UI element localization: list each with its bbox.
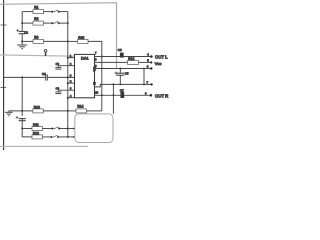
switch SA4 (51, 135, 60, 138)
wire bus1b (21, 77, 23, 116)
node bus2 R12 (67, 136, 69, 138)
capacitor C5 (119, 69, 121, 73)
wire pin1 stub (68, 57, 75, 59)
node bus2 pin1 (67, 57, 69, 59)
test point circle (44, 49, 47, 52)
resistor R13 (128, 60, 139, 64)
node bus1b top (21, 76, 23, 78)
svg-text:8: 8 (95, 65, 97, 68)
wire R3 row left (22, 40, 33, 42)
wire R1 row left (22, 11, 33, 13)
resistor R4 (78, 39, 89, 43)
node bus2-R3 (67, 40, 69, 42)
wire bus2 (67, 12, 69, 137)
wire test point stem (45, 52, 47, 56)
wire long input row (4, 76, 46, 78)
svg-text:4: 4 (147, 53, 149, 57)
svg-text:OUT L: OUT L (155, 54, 168, 59)
svg-text:C5: C5 (125, 72, 129, 76)
wire R2 row right (44, 22, 52, 24)
svg-text:R14: R14 (77, 105, 83, 109)
wire R11 row mid (43, 128, 52, 130)
wire OUT L row (102, 56, 152, 58)
svg-text:R11: R11 (33, 123, 39, 127)
op-amp U1 / IC DA1 (75, 54, 95, 97)
svg-text:6: 6 (145, 91, 147, 95)
node row3 cap (119, 68, 121, 70)
wire pin4 stub (68, 82, 75, 84)
svg-text:10: 10 (95, 90, 98, 94)
wire R1 row right (44, 11, 52, 13)
scan artifact gray bottom line (0, 145, 88, 147)
wire R10 row right (43, 110, 68, 112)
wire x113 vertical (112, 84, 114, 114)
frame tick mid (1, 87, 7, 89)
switch SA3 (51, 127, 60, 130)
scan artifact gray mid line (0, 55, 75, 56)
wire R12 arrow stub (68, 136, 73, 138)
svg-text:Vcc: Vcc (155, 61, 162, 66)
node bus2-R2 (67, 22, 69, 24)
wire pin5 row (58, 89, 74, 91)
capacitor C8 (16, 116, 26, 121)
wire Vcc row right (139, 61, 152, 63)
resistor R10 (33, 109, 44, 113)
svg-text:R1: R1 (34, 6, 38, 10)
svg-text:R10: R10 (34, 105, 40, 109)
svg-text:7: 7 (147, 80, 149, 84)
resistor R14 (76, 109, 87, 113)
node bus1-R3 (21, 40, 23, 42)
node OUT R terminal (150, 94, 153, 97)
resistor R12 (32, 135, 43, 139)
svg-text:R2: R2 (34, 17, 38, 21)
switch SA1 (51, 10, 60, 13)
wire pin bottom stub (68, 97, 75, 99)
resistor R11 (32, 127, 43, 131)
wire R11 arrow stub (68, 128, 73, 130)
node bus2 pin3 (67, 76, 69, 78)
frame tick top (1, 24, 7, 26)
node riser OUT L (101, 55, 103, 57)
wire OUT R row (95, 94, 151, 96)
resistor R1 (33, 10, 44, 14)
ground G1 (17, 45, 27, 49)
svg-text:R13: R13 (128, 57, 134, 61)
svg-text:R3: R3 (34, 36, 38, 40)
wire bus1b bottom corner (22, 129, 32, 137)
wire R12 row mid (43, 136, 51, 138)
wire R4 to riser (88, 41, 102, 111)
node bus2 R10 (67, 110, 69, 112)
capacitor C1 (16, 29, 26, 34)
wire row3 (95, 68, 152, 70)
svg-text:R12: R12 (33, 131, 39, 135)
svg-text:R15: R15 (78, 36, 84, 40)
wire R11 row left (22, 128, 32, 130)
wire Vcc row (95, 61, 128, 63)
wire R3 row right (44, 40, 68, 42)
resistor R3 (33, 39, 44, 43)
wire bus1 top (21, 12, 23, 32)
svg-text:9: 9 (95, 59, 97, 62)
node row3 x144 (143, 68, 145, 70)
wire pin2 row (58, 65, 74, 67)
svg-text:C6: C6 (118, 48, 122, 52)
wire row4 with hop (95, 84, 152, 87)
wire R11 row right (59, 128, 67, 130)
svg-text:DA1: DA1 (81, 55, 89, 60)
svg-text:C1: C1 (24, 30, 28, 34)
capacitor C7 (120, 92, 124, 98)
scan artifact gray rounded box (75, 114, 113, 143)
node Vcc terminal (150, 61, 152, 63)
node OUT L terminal (150, 55, 153, 58)
node bus2 R11 (67, 128, 69, 130)
switch SA2 (51, 21, 60, 24)
frame border left (3, 0, 5, 150)
ground G2 left (5, 111, 13, 116)
node bus1b R10 (21, 110, 23, 112)
wire R12 row right (58, 136, 68, 138)
node bus1b R11 (21, 128, 23, 130)
wire bus1 top lower segment (21, 34, 23, 45)
wire x144 vertical (143, 69, 145, 85)
scan artifact gray top band (0, 3, 117, 69)
capacitor C2 (46, 74, 48, 80)
wire pin7 stub (95, 56, 102, 58)
node bus1-R2 (21, 22, 23, 24)
svg-text:OUT R: OUT R (155, 93, 168, 98)
capacitor C6 (120, 53, 124, 58)
wire R2 row to bus2 (58, 22, 68, 24)
node row3 terminal (150, 67, 152, 69)
wire R1 row to bus2 (58, 11, 68, 13)
wire R2 row left (22, 22, 33, 24)
svg-text:C2: C2 (42, 72, 46, 76)
wire R14 to riser (87, 110, 102, 112)
wire R14 row left (68, 110, 76, 112)
wire R10 row left (9, 110, 33, 112)
svg-text:C7: C7 (120, 88, 124, 92)
resistor R2 (33, 21, 44, 25)
node row4 terminal (150, 83, 152, 85)
svg-text:C4: C4 (56, 86, 60, 90)
wire R4 row (68, 40, 78, 42)
svg-text:7: 7 (95, 51, 97, 55)
